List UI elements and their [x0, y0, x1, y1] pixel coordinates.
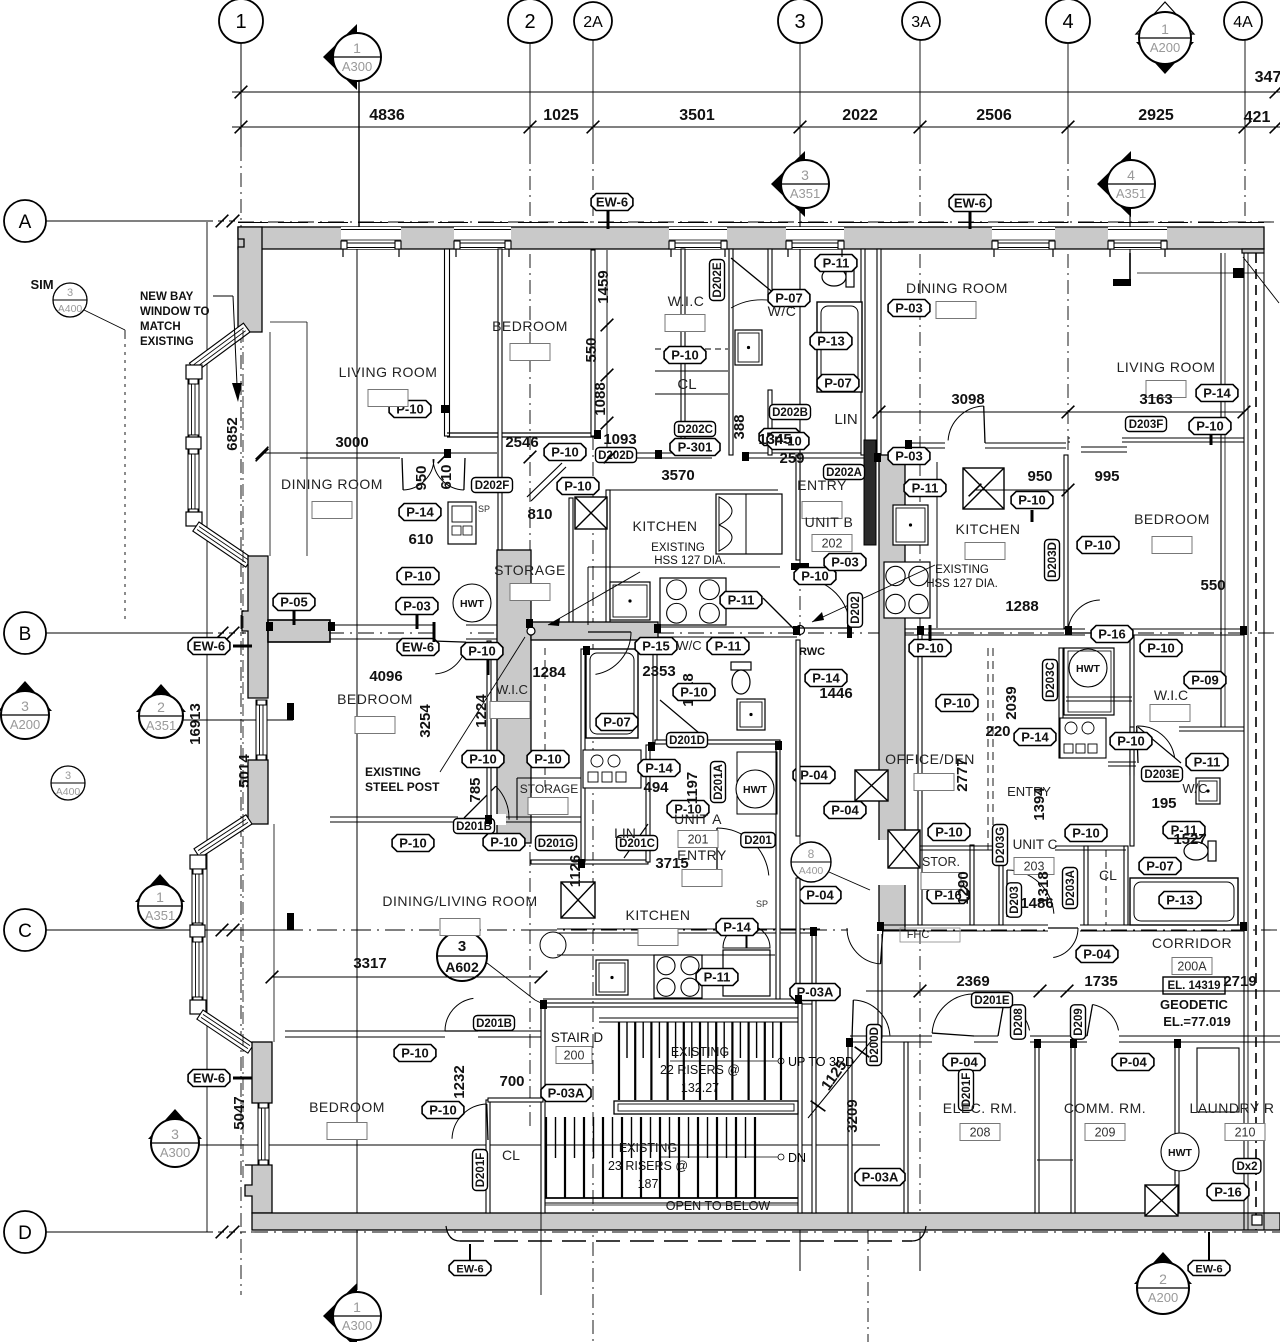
toilet WC upper: [822, 267, 854, 287]
svg-text:D201B: D201B: [476, 1018, 512, 1030]
HWT closet unit C: [1064, 648, 1114, 715]
wall left unit bedroom C: [285, 1030, 541, 1032]
svg-text:CL: CL: [677, 376, 696, 393]
svg-text:WINDOW TO: WINDOW TO: [140, 306, 209, 318]
svg-text:494: 494: [643, 779, 669, 796]
svg-text:A351: A351: [1116, 186, 1146, 201]
door corridor west arc: [880, 928, 883, 964]
svg-text:610: 610: [408, 531, 433, 548]
tag EW-6 mid B: [397, 639, 439, 656]
grid bubble C: [45, 929, 207, 931]
svg-text:STOR.: STOR.: [922, 855, 960, 869]
svg-text:P-10: P-10: [534, 752, 561, 767]
wall B-line right unit: [905, 628, 1244, 630]
svg-text:HSS 127 DIA.: HSS 127 DIA.: [654, 555, 726, 567]
tag D203G vert: [993, 825, 1008, 866]
tag D201 main: [741, 833, 775, 848]
svg-text:4096: 4096: [369, 668, 402, 685]
tag P-04 corridor: [1076, 946, 1118, 963]
tag P-03 left: [396, 598, 438, 615]
svg-text:132.27: 132.27: [681, 1081, 719, 1095]
kitchen A column circle: [540, 932, 566, 958]
tag Dx2: [1233, 1159, 1261, 1174]
svg-text:2506: 2506: [976, 107, 1012, 124]
svg-text:P-09: P-09: [1191, 673, 1218, 688]
svg-text:D202C: D202C: [677, 424, 713, 436]
tag P-11 right: [1186, 754, 1228, 771]
right party wall center dashed: [1255, 253, 1257, 1230]
svg-text:3: 3: [65, 770, 71, 782]
storage diagonal wall: [527, 463, 562, 497]
svg-text:B: B: [19, 624, 32, 645]
tag P-09: [1184, 672, 1226, 689]
svg-text:1232: 1232: [451, 1065, 468, 1098]
svg-text:D202B: D202B: [772, 407, 808, 419]
tag P-16 laundry: [1207, 1184, 1249, 1201]
storage sink cabinet: [448, 502, 476, 544]
kitchen right sink: [893, 505, 928, 545]
svg-text:D201: D201: [744, 835, 772, 847]
tub WC upper: [817, 302, 862, 392]
stair bottom rail: [545, 1197, 798, 1199]
svg-text:DINING ROOM: DINING ROOM: [281, 476, 383, 492]
steel post node: [527, 627, 535, 635]
tag D203A vert: [1063, 868, 1078, 909]
svg-text:P-10: P-10: [429, 1103, 456, 1118]
svg-text:23 RISERS @: 23 RISERS @: [608, 1159, 688, 1173]
svg-text:KITCHEN: KITCHEN: [633, 518, 698, 534]
closet CL bottom-left wall: [486, 1100, 490, 1213]
tag P-10 bed2: [394, 1045, 436, 1062]
bulkhead line right: [1137, 272, 1264, 274]
wall chase right: [1071, 1042, 1075, 1213]
top exterior wall: [238, 227, 1264, 249]
kitchen A counter: [557, 954, 775, 956]
tag P-04 unit A2: [824, 802, 866, 819]
grid bubble 4: [1046, 0, 1090, 43]
tag P-10 d202b: [767, 433, 809, 450]
door D202F double doors: [402, 458, 403, 490]
svg-text:P-03A: P-03A: [548, 1086, 585, 1101]
bay window 1 vertical window upper: [188, 379, 199, 440]
tag EW-6 top right: [949, 195, 991, 212]
svg-text:2A: 2A: [583, 14, 603, 31]
svg-text:D203E: D203E: [1144, 769, 1179, 781]
wall COMM/LAUNDRY: [1175, 1042, 1179, 1213]
sink WC mid vanity: [737, 699, 765, 730]
svg-text:CORRIDOR: CORRIDOR: [1152, 935, 1232, 951]
kitchen left counter outline: [588, 566, 780, 568]
svg-text:4: 4: [1127, 167, 1135, 183]
svg-text:1088: 1088: [592, 382, 609, 415]
svg-text:D201D: D201D: [669, 735, 705, 747]
section marker 1/A300 top: [323, 24, 357, 90]
wall kitchenB/bedroom vertical grid4: [1064, 455, 1068, 628]
svg-text:P-10: P-10: [801, 569, 828, 584]
svg-text:550: 550: [1200, 577, 1225, 594]
svg-text:EW-6: EW-6: [456, 1264, 483, 1276]
door unit B entry arc: [800, 627, 850, 629]
right wall inner face: [1220, 253, 1222, 727]
svg-text:P-04: P-04: [806, 888, 834, 903]
svg-text:P-03: P-03: [403, 599, 430, 614]
grid bubble 2: [508, 0, 552, 43]
svg-text:D203C: D203C: [1045, 662, 1057, 698]
svg-text:P-10: P-10: [490, 835, 517, 850]
laundry washer: [1197, 1048, 1239, 1112]
svg-text:EL.=77.019: EL.=77.019: [1163, 1014, 1231, 1029]
bay window 1 corner post lower: [186, 512, 202, 526]
door B-wall bedroom arc: [433, 641, 466, 642]
door D201F arc closet: [487, 1104, 488, 1140]
svg-text:A: A: [19, 212, 32, 233]
svg-text:3317: 3317: [353, 955, 386, 972]
svg-text:550: 550: [583, 337, 600, 362]
svg-text:UNIT C: UNIT C: [1013, 837, 1058, 852]
tag P-10 wc mid: [673, 684, 715, 701]
section line 4-A351: [1129, 212, 1131, 283]
kitchen left pantry: [716, 494, 782, 554]
dim line 3317: [272, 976, 541, 978]
window jamb stubs top wall: [342, 249, 344, 257]
kitchen B counter edge: [936, 462, 938, 628]
svg-text:P-16: P-16: [1098, 627, 1125, 642]
wall LIN right: [646, 745, 650, 862]
dim line 3000: [262, 452, 497, 454]
wall unit B left vertical: [877, 249, 881, 455]
section cut line A300: [358, 80, 360, 229]
svg-text:STORAGE: STORAGE: [520, 782, 578, 796]
svg-text:STEEL POST: STEEL POST: [365, 780, 440, 794]
svg-text:D201E: D201E: [974, 995, 1009, 1007]
HWT unit C: [1069, 649, 1107, 687]
svg-text:P-03: P-03: [831, 555, 858, 570]
stair upper flight risers: [618, 1022, 620, 1100]
svg-text:220: 220: [985, 723, 1010, 740]
svg-text:D: D: [18, 1223, 32, 1244]
svg-text:P-04: P-04: [1119, 1055, 1147, 1070]
tag P-10 right bed: [1077, 537, 1119, 554]
tag P-10 storage top: [461, 643, 503, 660]
wall ELEC left: [904, 1042, 908, 1213]
svg-text:LIN: LIN: [834, 411, 857, 428]
svg-text:ELEC. RM.: ELEC. RM.: [943, 1100, 1018, 1116]
left wall pier: [248, 760, 268, 824]
tag EW-6 left C: [188, 1070, 230, 1087]
tag P-301: [670, 439, 720, 456]
svg-text:6852: 6852: [224, 417, 241, 450]
svg-text:388: 388: [731, 414, 748, 439]
svg-text:P-03: P-03: [895, 301, 922, 316]
bay window 2 corner post lower: [190, 1000, 206, 1014]
dim line 3098/3163: [879, 411, 1244, 413]
X shaft box laundry: [1145, 1185, 1178, 1216]
wall B-line thin left: [330, 624, 497, 626]
HWT closet unit A: [737, 752, 777, 814]
svg-text:2369: 2369: [956, 973, 989, 990]
window W5 top wall: [992, 227, 1055, 249]
svg-text:1: 1: [353, 40, 361, 56]
door D202E leaf: [731, 258, 792, 308]
door D203E arc: [1138, 727, 1181, 763]
svg-text:SP: SP: [478, 504, 490, 514]
svg-text:1: 1: [235, 11, 246, 33]
svg-text:A200: A200: [1148, 1290, 1178, 1305]
tag D203F: [1126, 417, 1167, 432]
STORAGE closet box: [516, 778, 518, 820]
svg-text:3163: 3163: [1139, 391, 1172, 408]
kitchen left counter sink: [610, 582, 650, 620]
tag D202C: [675, 422, 716, 437]
svg-text:EW-6: EW-6: [954, 196, 986, 211]
svg-text:P-04: P-04: [1083, 947, 1111, 962]
tag P-04 comm: [1112, 1054, 1154, 1071]
svg-text:3570: 3570: [661, 467, 694, 484]
wall ELEC right chase: [1035, 1042, 1039, 1213]
tag P-04 elec: [943, 1054, 985, 1071]
wall WIC unit C vertical: [1130, 635, 1134, 775]
tag P-15: [635, 638, 677, 655]
svg-text:EW-6: EW-6: [402, 640, 434, 655]
kitchen left range: [660, 578, 726, 625]
grid bubble D: [45, 1231, 207, 1233]
svg-text:2: 2: [157, 699, 165, 715]
door bedroom left arc: [445, 1030, 478, 1032]
svg-text:P-14: P-14: [406, 505, 434, 520]
door entry A arc: [716, 828, 718, 880]
grid line 1: [240, 37, 242, 147]
svg-text:P-11: P-11: [1194, 755, 1221, 770]
wall kitchen top y455: [596, 452, 878, 454]
svg-text:1288: 1288: [1005, 598, 1038, 615]
tag P-03 kitchen: [824, 554, 866, 571]
dim line corridor: [866, 990, 1280, 992]
left wall window B: [256, 700, 267, 760]
svg-text:A300: A300: [342, 1318, 372, 1333]
left wall below bay2: [252, 1042, 272, 1103]
tag P-10 below 950: [1011, 492, 1053, 509]
bay window 1 upper angled window: [189, 323, 250, 372]
bottom wall dashed line below: [460, 1240, 912, 1242]
svg-text:HWT: HWT: [1076, 663, 1100, 675]
door D203D arc: [1068, 632, 1101, 634]
svg-text:CL: CL: [502, 1147, 520, 1163]
svg-text:P-15: P-15: [642, 639, 669, 654]
X shaft box kitchen left a: [575, 497, 607, 529]
wall bedroom/storage y818: [330, 816, 583, 818]
tag D203 vert corridor: [1007, 883, 1022, 917]
sink unit C: [1196, 778, 1220, 804]
party wall left-center thick: [497, 550, 531, 843]
grid line C: [45, 929, 541, 931]
door LIN leaf: [624, 824, 648, 858]
svg-text:HSS 127 DIA.: HSS 127 DIA.: [926, 578, 998, 590]
tag P-10 office: [928, 824, 970, 841]
dim line 950/995 right: [975, 489, 1068, 491]
tag P-13 wc: [810, 333, 852, 350]
svg-text:2546: 2546: [505, 434, 538, 451]
HWT storage left: [453, 584, 491, 622]
svg-text:4A: 4A: [1233, 14, 1253, 31]
door D201E arc: [932, 1033, 974, 1045]
kitchen A bottom wall: [543, 998, 813, 1000]
door B-wall arc: [588, 631, 631, 633]
corridor west end wall: [878, 925, 882, 1038]
tag P-10 bedroom2: [462, 751, 504, 768]
unit A east wall: [796, 455, 800, 560]
wall W/C bottom: [655, 740, 780, 744]
svg-text:D201F: D201F: [475, 1153, 487, 1188]
svg-text:1025: 1025: [543, 107, 579, 124]
svg-text:3: 3: [21, 698, 29, 714]
svg-text:3098: 3098: [951, 391, 984, 408]
svg-text:700: 700: [499, 1073, 524, 1090]
HWT laundry: [1161, 1133, 1199, 1171]
svg-text:EXISTING: EXISTING: [619, 1141, 677, 1155]
svg-text:2353: 2353: [642, 663, 675, 680]
svg-text:SIM: SIM: [30, 277, 53, 292]
bottom left corner wall: [245, 1165, 272, 1213]
HSS leader right: [812, 565, 935, 622]
svg-text:LAUNDRY R: LAUNDRY R: [1190, 1100, 1275, 1116]
bay window 1 corner post upper: [186, 365, 202, 379]
unit A stacked W/D: [583, 750, 641, 788]
kitchen right range: [884, 562, 930, 618]
tag P-10 B-wall right: [909, 640, 951, 657]
grid bubble 3: [778, 0, 822, 43]
svg-text:2039: 2039: [1003, 686, 1020, 719]
grid bubble 3A: [902, 2, 940, 40]
door kitchen B arc: [984, 406, 985, 443]
svg-text:DN: DN: [788, 1151, 806, 1165]
corridor bottom wall: [850, 1035, 1280, 1037]
tag P-10 kitchenB: [794, 568, 836, 585]
black tick P-10 living: [441, 405, 449, 413]
X shaft box office: [855, 770, 888, 801]
kitchen A fridge: [723, 950, 770, 996]
tag P-10 wic: [664, 347, 706, 364]
svg-text:C: C: [18, 921, 32, 942]
svg-text:1527: 1527: [1173, 831, 1206, 848]
tag P-10 wic2: [527, 751, 569, 768]
svg-text:A602: A602: [445, 959, 479, 975]
office dashed demo wall: [987, 648, 989, 850]
svg-text:3254: 3254: [417, 704, 434, 738]
kitchen bulkhead line: [608, 489, 778, 491]
svg-text:8: 8: [808, 847, 815, 861]
party wall stub x1130: [1129, 253, 1131, 283]
grid line 4A: [1244, 37, 1246, 150]
tag P-07 right: [1139, 858, 1181, 875]
tag D201D wc: [667, 733, 708, 748]
tag P-11 unitB: [904, 480, 946, 497]
svg-text:P-10: P-10: [1196, 419, 1223, 434]
tag P-04 unit A: [793, 767, 835, 784]
svg-text:2: 2: [524, 11, 535, 33]
stair lower flight risers: [545, 1117, 547, 1198]
section marker 1/A300 bottom: [323, 1283, 357, 1342]
bay room inner face lines: [269, 332, 271, 556]
tag P-10 a: [544, 444, 586, 461]
svg-text:995: 995: [1094, 468, 1119, 485]
svg-text:OPEN TO BELOW: OPEN TO BELOW: [666, 1199, 771, 1213]
HWT unit A: [736, 770, 774, 808]
tag EW-6 top left: [591, 194, 633, 211]
stair UP arrow: [670, 1060, 778, 1062]
svg-text:P-03A: P-03A: [797, 985, 834, 1000]
diagonal leader top right: [1243, 257, 1279, 303]
svg-text:BEDROOM: BEDROOM: [309, 1099, 385, 1115]
wall dining/living divider: [300, 452, 400, 454]
wall unit A right / corridor left thick: [879, 455, 905, 930]
tag P-13 right: [1159, 892, 1201, 909]
tag P-10 d201g: [392, 835, 434, 852]
svg-text:3: 3: [171, 1126, 179, 1142]
wall B-line center thick: [531, 622, 658, 640]
svg-text:HWT: HWT: [460, 598, 484, 610]
door D209 arc: [1087, 1004, 1093, 1036]
wall WIC right vertical: [681, 249, 685, 455]
svg-text:CL: CL: [1099, 867, 1117, 883]
tag EW-6 bottom right: [1188, 1261, 1230, 1276]
top dimension line 2: [232, 126, 1280, 128]
wall WIC left vertical: [487, 641, 491, 818]
svg-text:1: 1: [1161, 21, 1169, 37]
svg-text:UNIT A: UNIT A: [674, 811, 722, 827]
svg-text:P-10: P-10: [551, 445, 578, 460]
svg-text:950: 950: [413, 465, 430, 490]
svg-text:EXISTING: EXISTING: [651, 542, 705, 554]
tag D209 vert: [1071, 1005, 1086, 1039]
tag P-10 right2: [1189, 418, 1231, 435]
tag P-10 storage left: [397, 568, 439, 585]
tag D202 vert: [848, 593, 863, 627]
tag D201A vert: [711, 762, 726, 803]
svg-text:P-10: P-10: [1018, 493, 1045, 508]
stair upper flight top line: [599, 1017, 798, 1019]
svg-text:A200: A200: [1150, 40, 1180, 55]
svg-text:421: 421: [1244, 109, 1271, 126]
bay window 1 mid post: [186, 437, 201, 449]
svg-text:NEW BAY: NEW BAY: [140, 291, 194, 303]
svg-text:GEODETIC: GEODETIC: [1160, 997, 1229, 1012]
door D203F leaf: [1081, 446, 1127, 448]
top right corner wall: [1242, 249, 1264, 253]
wall office/unitC vertical: [918, 629, 922, 925]
kitchen A range: [654, 955, 702, 998]
svg-text:BEDROOM: BEDROOM: [492, 318, 568, 334]
stair outer right wall: [812, 930, 816, 1213]
dining room west face line: [306, 322, 308, 556]
unit C kitchenette: [1060, 718, 1106, 758]
label GEODETIC: [1163, 977, 1225, 994]
window W2 top wall: [454, 227, 511, 249]
wall junction blocks: [444, 449, 451, 458]
svg-text:210: 210: [1235, 1126, 1256, 1140]
svg-text:1093: 1093: [603, 431, 636, 448]
wall CL unit C right: [1124, 846, 1128, 925]
window W1 top wall: [341, 227, 401, 249]
kitchen A top line: [557, 928, 820, 930]
door D208 arc: [998, 1004, 1004, 1036]
svg-text:COMM. RM.: COMM. RM.: [1064, 1100, 1146, 1116]
tag D203E: [1142, 767, 1183, 782]
svg-text:EL. 14319: EL. 14319: [1167, 980, 1220, 992]
chase bottom: [1037, 1159, 1073, 1161]
wall entry left vertical: [999, 850, 1003, 925]
svg-text:209: 209: [1095, 1126, 1116, 1140]
svg-text:3209: 3209: [844, 1099, 861, 1132]
